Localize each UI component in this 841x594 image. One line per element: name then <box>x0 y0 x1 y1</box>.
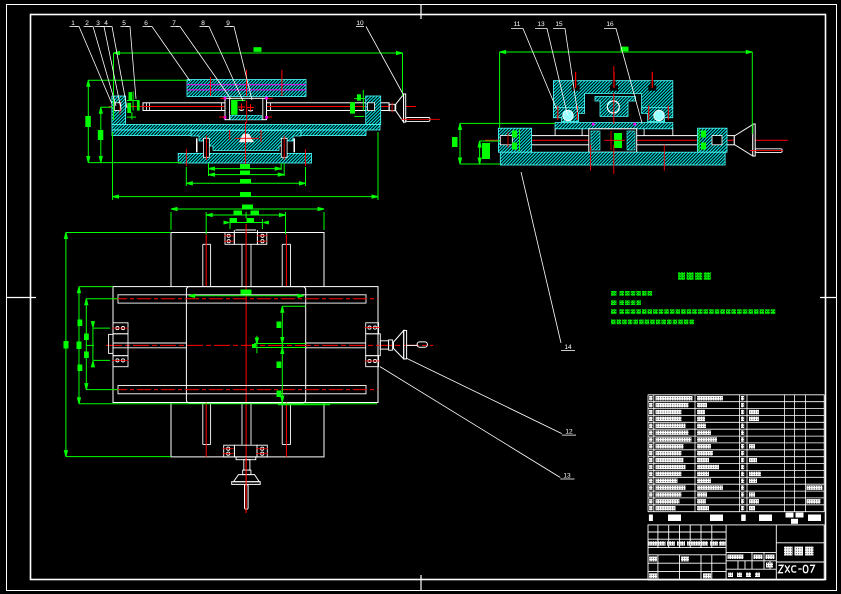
centering mark bottom <box>420 575 422 591</box>
bottom dims of front view <box>113 132 379 200</box>
balloon leaders 1-9 <box>75 27 252 110</box>
plan right handwheel <box>394 331 428 359</box>
screw X centerline <box>109 106 416 108</box>
balloon leaders 11 13 15 16 <box>511 29 642 124</box>
centering mark left <box>6 297 36 299</box>
top plate red stud centerlines <box>211 70 282 96</box>
technical requirements line 3 <box>611 309 775 314</box>
svg-text:3: 3 <box>96 20 100 27</box>
right leg of table block (hatched with bearing boss) <box>642 106 673 122</box>
svg-text:7: 7 <box>172 20 176 27</box>
left bearing tab <box>109 323 128 367</box>
plan center red vertical centerline <box>245 224 247 513</box>
svg-text:11: 11 <box>514 21 521 28</box>
svg-text:6: 6 <box>144 20 148 27</box>
BOM row texts <box>649 396 823 511</box>
table top plate (hatched) <box>187 80 306 97</box>
upper arm rail red centerlines <box>206 234 286 286</box>
plan dims above (arm width) <box>171 205 324 231</box>
inner table rectangle <box>186 287 305 403</box>
plan right handle shaft <box>380 340 392 350</box>
plan inner vertical dim chain <box>254 306 330 404</box>
dimension 500 top of front view <box>114 47 403 120</box>
balloon 14 with long leader <box>521 172 575 351</box>
plan left dim rail spacing <box>84 299 118 390</box>
dimension height left A <box>85 80 187 162</box>
left bearing bolt (green) <box>127 92 140 120</box>
bottom handle flange and shaft <box>236 457 256 475</box>
left bearing block Y (hatched) <box>498 128 531 152</box>
section arrow at plan center <box>252 336 258 354</box>
svg-text:9: 9 <box>226 20 230 27</box>
svg-text:16: 16 <box>606 21 614 28</box>
handwheel Y (right side) <box>734 124 783 156</box>
main rectangle (cross slide) <box>113 287 378 403</box>
lower slide dovetail block (hatched) <box>191 131 301 151</box>
lead screw Y shaft <box>500 136 734 145</box>
BOM header row <box>649 513 821 524</box>
plan left dim bolt spacing <box>78 320 111 372</box>
svg-text:4: 4 <box>104 20 108 27</box>
bottom handle red centerline <box>245 457 247 513</box>
svg-text:5: 5 <box>122 20 126 27</box>
balloon numbers 11 13 15 16 <box>514 21 614 28</box>
leader 12 <box>406 358 576 436</box>
left tab bolt red centerlines <box>112 328 129 360</box>
balloon 10 <box>356 20 403 94</box>
title block texts <box>649 541 814 578</box>
dimension height left B <box>98 107 112 162</box>
screw Y centerline <box>485 139 788 141</box>
saddle strip under table block (hatched) <box>555 123 673 136</box>
plan screw horizontal centerline <box>106 344 433 346</box>
centering mark top <box>420 4 422 19</box>
technical requirements line 1 <box>611 291 652 296</box>
top tab bolt red centerlines <box>224 236 268 241</box>
BOM parts list grid <box>648 395 824 512</box>
lower arm rail red centerlines <box>206 403 286 457</box>
plan screw shaft edges <box>113 343 366 348</box>
plan dims above (bolt spacing pair) <box>206 211 285 235</box>
plan left dim total height <box>64 233 172 457</box>
lead screw X shaft <box>143 103 389 111</box>
swivel center section (hatched, with screw hole) <box>595 97 636 117</box>
screw end lock nut <box>389 103 395 113</box>
drawing number ZXC-07 <box>779 565 815 572</box>
base bolts with centerlines <box>196 136 295 161</box>
lower arm rails <box>203 403 291 445</box>
plan inner width dim 250 <box>189 290 304 298</box>
base red centerlines <box>186 122 305 168</box>
handwheel X (right side) <box>396 94 440 122</box>
svg-text:10: 10 <box>356 20 364 27</box>
middle nut block Y <box>589 129 637 152</box>
nut flange strip (hatched with magenta arrows) <box>591 123 637 152</box>
bottom tab with bolt plates <box>224 445 268 457</box>
right tab bolt red centerlines <box>365 328 381 361</box>
centering mark right <box>820 297 837 299</box>
dimension left of side view A <box>452 123 555 164</box>
upper arm rails (ways) <box>203 244 291 286</box>
title block grid <box>648 525 824 580</box>
table block side view (hatched) <box>553 81 672 108</box>
upper arm outline <box>171 233 324 287</box>
right bearing block X (hatched) <box>366 96 381 125</box>
base Y red centerlines <box>591 66 665 174</box>
technical requirements line 4 <box>611 320 694 325</box>
dimension left of side view B <box>478 141 500 164</box>
right bearing block Y (hatched) <box>698 128 728 152</box>
svg-text:8: 8 <box>201 20 205 27</box>
svg-text:13: 13 <box>537 21 545 28</box>
left bearing block X (hatched) <box>112 96 126 125</box>
bottom tab bolt red centerlines <box>223 449 268 454</box>
lower arm outline <box>171 403 324 457</box>
saddle (hatched band) <box>112 125 380 136</box>
upper horizontal rail <box>113 295 378 303</box>
plan left dim main height <box>77 287 378 404</box>
middle nut assembly X <box>219 97 273 123</box>
lower horizontal rail <box>113 386 378 394</box>
table T-slot stud pins (red) <box>576 72 653 88</box>
plan dims above (tab pair) <box>224 218 268 229</box>
dimension top of side view <box>500 47 753 134</box>
svg-text:2: 2 <box>85 20 89 27</box>
right bearing bolt (green) <box>350 90 365 116</box>
balloon numbers 1-9 <box>70 20 233 27</box>
svg-text:12: 12 <box>565 429 573 436</box>
svg-text:14: 14 <box>564 344 572 351</box>
left leg of table block (hatched with bearing boss) <box>553 106 584 122</box>
technical requirements line 2 <box>611 300 641 305</box>
svg-text:13: 13 <box>563 473 571 480</box>
right bearing tab <box>366 323 381 367</box>
svg-text:1: 1 <box>71 20 75 27</box>
base plate (hatched) <box>178 153 311 163</box>
leader 13b <box>380 367 575 480</box>
bottom handwheel <box>232 475 261 510</box>
base plate Y (hatched) <box>500 152 725 165</box>
technical requirements title <box>678 272 711 280</box>
svg-text:15: 15 <box>555 21 563 28</box>
top tab with bolt plates <box>225 230 267 244</box>
